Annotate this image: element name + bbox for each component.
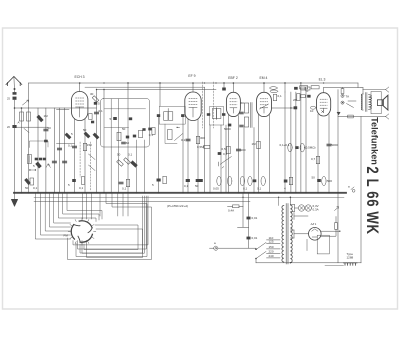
wire HV right [321, 217, 336, 237]
svg-text:0,5: 0,5 [222, 147, 227, 151]
wire mid verticals [204, 87, 206, 193]
coil IF2 lower [168, 130, 173, 140]
wire top HT bus [29, 82, 359, 84]
tube EM4 target mark [260, 104, 269, 109]
wire IF2 links [159, 83, 161, 106]
svg-text:0,1: 0,1 [68, 144, 73, 148]
capacitor trio [35, 158, 38, 161]
wire mid2 tops [284, 83, 286, 92]
svg-text:0,1: 0,1 [33, 186, 38, 190]
capacitor padder 1 [52, 161, 56, 163]
capacitor padder 3 [63, 161, 67, 163]
wire lamp feed [290, 205, 298, 212]
capacitor mains 1 [247, 217, 251, 220]
choke bus 1 [300, 86, 308, 89]
svg-text:50: 50 [122, 127, 126, 131]
transformer output secondary [369, 95, 372, 110]
wire EM4 pins [258, 115, 260, 193]
svg-text:EBF 2: EBF 2 [228, 76, 238, 80]
svg-text:TA: TA [346, 95, 350, 99]
resistor EBF2 load [227, 146, 230, 154]
wire input line 2 [15, 126, 49, 128]
coil IF can 1 [101, 99, 150, 148]
switch wave change [23, 100, 29, 105]
switch band wafer [71, 221, 92, 243]
switch pickup [219, 157, 232, 169]
resistor speaker shunt [348, 115, 354, 118]
wire AZ1 fil [290, 230, 308, 238]
wire bus link left [28, 83, 30, 108]
wire AZ1 left stub [306, 239, 308, 250]
wire right vertical B [360, 117, 362, 263]
fuse mains [233, 205, 240, 208]
svg-text:0,05: 0,05 [213, 187, 219, 191]
wire IF1 feeds [103, 90, 105, 99]
svg-text:10: 10 [310, 109, 314, 113]
wire AZ1 plate loop [294, 213, 340, 232]
wire EL3 pins [317, 114, 319, 193]
node arrow top [386, 87, 389, 92]
wire heater line [34, 196, 344, 198]
resistor EF9 cathode [196, 136, 199, 144]
svg-text:1288: 1288 [347, 256, 354, 260]
transformer IF2 [159, 106, 185, 124]
coil ferrite left [27, 155, 31, 164]
tube EL 3 [317, 77, 331, 116]
svg-text:5000: 5000 [331, 143, 338, 147]
wire AVC top link [85, 86, 205, 88]
resistor ECH3 right [89, 114, 92, 120]
wire speaker frame [371, 92, 381, 114]
svg-text:240: 240 [269, 254, 274, 258]
resistor TA [341, 89, 344, 94]
transformer output primary [361, 94, 363, 110]
svg-text:AZ 1: AZ 1 [310, 222, 317, 226]
svg-text:A: A [18, 121, 20, 125]
speaker magnet [377, 100, 382, 106]
wire right vertical A [337, 90, 339, 263]
wire ECH3 plate up [79, 83, 81, 92]
capacitor row d electrolytics [199, 179, 203, 182]
lamp pilot 1 [298, 205, 304, 211]
node chassis triangle [337, 112, 340, 115]
wire gang dashed 1 [202, 82, 204, 128]
svg-text:50: 50 [117, 153, 121, 157]
capacitor mid blob [218, 152, 222, 155]
capacitor screen [95, 112, 99, 114]
tube ECH 3 [72, 75, 88, 121]
capacitor IF4 trims [240, 112, 243, 113]
wire AZ1 box below [317, 235, 329, 254]
switch contact V [46, 164, 50, 168]
capacitor electrolytic pair [270, 87, 278, 90]
node arrow t [335, 207, 339, 211]
wire AVC line [34, 201, 250, 203]
svg-text:1M: 1M [44, 114, 49, 118]
switch left low [24, 129, 29, 133]
wire ECH3 pins down [74, 119, 76, 193]
capacitor EBF2 ac [237, 149, 241, 151]
tube EBF 2 [226, 76, 240, 117]
transformer power secondary [290, 205, 292, 263]
svg-text:50: 50 [195, 184, 199, 188]
transformer power core [285, 204, 287, 265]
capacitor top blob [222, 88, 226, 91]
svg-text:0,1: 0,1 [223, 152, 228, 156]
wire speaker bottom run [338, 116, 386, 118]
capacitor antenna shunt [12, 125, 16, 128]
wire left verticals [21, 108, 23, 193]
svg-text:60: 60 [241, 101, 245, 105]
capacitor EF9 bypass [186, 139, 190, 141]
wire band loops bottom [73, 196, 148, 245]
svg-text:50: 50 [25, 186, 29, 190]
wire antenna input line [15, 107, 97, 109]
svg-text:EM 4: EM 4 [260, 76, 268, 80]
capacitor antenna series [14, 88, 16, 90]
switch mains [256, 243, 266, 259]
transformer output core [364, 93, 366, 112]
tube EF 9 [185, 74, 201, 121]
resistor EM4 grid [257, 141, 260, 149]
capacitor padder 2 [58, 148, 62, 150]
svg-text:0,3A: 0,3A [313, 207, 319, 211]
coil ant A [20, 112, 24, 121]
wire EF9 plate [192, 83, 194, 92]
antenna [6, 77, 22, 93]
capacitor 01 coupling [152, 128, 155, 135]
svg-text:EF 9: EF 9 [188, 74, 195, 78]
svg-text:50: 50 [83, 128, 87, 132]
capacitor ECH3 grid [73, 146, 77, 148]
svg-text:0,1: 0,1 [257, 187, 262, 191]
capacitor IF2 left blob [157, 114, 160, 117]
capacitor tone EL3 [327, 144, 331, 146]
wire EL3 plate out [323, 88, 325, 93]
capacitor IF2 right blob [181, 114, 184, 117]
wire output primary top [361, 87, 363, 89]
transformer power primary [282, 206, 284, 263]
tube EL3 marker [322, 111, 324, 113]
wire band loops left [35, 193, 70, 239]
wire gang dashed 3 [79, 142, 81, 177]
choke bus 2 [311, 86, 319, 89]
node dots mid [29, 169, 30, 170]
svg-text:(0,5MΩ): (0,5MΩ) [305, 146, 316, 150]
node ab mark [351, 187, 355, 192]
svg-text:0,1: 0,1 [79, 186, 84, 190]
capacitor filter electrolytic [322, 176, 326, 185]
capacitor row e electrolytics [240, 176, 244, 185]
wire gang dashed 2 [213, 82, 215, 128]
svg-text:50: 50 [305, 89, 309, 93]
svg-text:220: 220 [269, 250, 274, 254]
wire switch bottom [255, 259, 257, 263]
wire mid2 verticals [284, 92, 286, 193]
resistor diag row [65, 133, 71, 139]
svg-text:1M: 1M [252, 142, 257, 146]
node bus junctions [14, 192, 16, 194]
resistor screen diag [92, 96, 99, 103]
svg-text:100: 100 [241, 148, 246, 152]
capacitor row c [157, 179, 161, 182]
svg-text:0,7: 0,7 [311, 157, 316, 161]
resistor ECH3 cathode [83, 143, 86, 151]
resistor row top [301, 87, 305, 90]
capacitor mains 2 [247, 237, 251, 240]
svg-text:(Pi-L88/L/23+A): (Pi-L88/L/23+A) [167, 204, 188, 208]
resistor diag small [36, 162, 42, 168]
resistor surge [335, 223, 338, 230]
wire band loops upper [58, 193, 96, 222]
svg-text:500: 500 [327, 179, 332, 183]
node arrow bottom [386, 114, 389, 119]
wire chassis bus [14, 192, 346, 194]
resistor volume pot [204, 145, 210, 148]
wire top bus right end [357, 83, 359, 88]
capacitor IF3 left [207, 113, 210, 116]
resistor 1M diag [37, 115, 43, 122]
jack TA bottom [341, 101, 344, 104]
lamp pilot 2 [305, 205, 311, 211]
wire IF4 drops [243, 128, 245, 193]
capacitor trim left [44, 129, 48, 131]
coil osc pack [117, 132, 121, 141]
svg-text:125: 125 [269, 240, 274, 244]
resistor diag cluster [117, 160, 124, 166]
svg-text:EL 3: EL 3 [319, 77, 326, 81]
svg-text:ECH 3: ECH 3 [75, 75, 85, 79]
wire can inner loop [105, 109, 146, 128]
wire heater top [289, 197, 291, 205]
capacitor decoupling blob [294, 87, 298, 90]
svg-text:FM: FM [64, 234, 69, 238]
svg-text:0,1: 0,1 [149, 133, 154, 137]
ground [11, 193, 17, 207]
resistor horiz [300, 95, 305, 98]
capacitor grid cap EL3 [310, 106, 315, 109]
wire IF3 box loop [209, 107, 223, 125]
wire band drops center [82, 193, 84, 219]
svg-text:0,1: 0,1 [122, 187, 127, 191]
wire mains v2 [248, 193, 250, 249]
wire HV bottom [256, 262, 361, 264]
capacitor can right [142, 128, 145, 131]
wire speaker top run [363, 89, 386, 91]
capacitor row a [72, 179, 76, 182]
svg-text:0,1: 0,1 [278, 94, 283, 98]
capacitor IF3 right [222, 113, 225, 116]
switch band contacts [89, 154, 96, 171]
wire IF1 drops [103, 99, 105, 193]
wire gang dashed 4 [90, 142, 92, 190]
plug mains [214, 246, 218, 250]
svg-text:0,1: 0,1 [243, 187, 248, 191]
svg-text:0,1+0,1: 0,1+0,1 [280, 143, 290, 147]
svg-text:0,1: 0,1 [181, 138, 186, 142]
wire EM4 top [263, 83, 265, 92]
resistor EM4 right [273, 94, 276, 101]
svg-text:150: 150 [269, 245, 274, 249]
capacitor blob mid [294, 106, 298, 109]
tube AZ1 [309, 228, 322, 241]
svg-text:0,4A: 0,4A [228, 209, 234, 213]
svg-text:60: 60 [126, 141, 130, 145]
wire mains v1 [242, 193, 244, 228]
transformer IF4 [244, 103, 248, 113]
svg-text:Telefunken: Telefunken [369, 117, 379, 165]
wire heater stub [238, 226, 249, 228]
svg-text:0,01: 0,01 [252, 236, 258, 240]
wire bottom links [325, 264, 344, 266]
speaker cone [383, 95, 388, 110]
wire EM4 output [272, 107, 296, 109]
blob mid [44, 140, 48, 143]
wire screen vertical [96, 90, 98, 193]
svg-text:150: 150 [87, 143, 92, 147]
svg-text:0,1: 0,1 [99, 109, 104, 113]
wire EBF2 pins [228, 115, 230, 193]
svg-text:0,01: 0,01 [252, 216, 258, 220]
svg-text:2M: 2M [293, 98, 298, 102]
switch IF contacts [175, 128, 183, 141]
comb suppressor [344, 263, 358, 265]
resistor vert 2M [297, 94, 300, 101]
svg-text:50: 50 [312, 176, 316, 180]
capacitor EBF2 out [228, 124, 231, 127]
wire EF9 pins [187, 119, 189, 193]
svg-text:30: 30 [90, 92, 94, 96]
coil ant B [27, 112, 31, 121]
svg-text:5000: 5000 [224, 127, 231, 131]
capacitor cathode EL3 pair [288, 143, 292, 152]
capacitor row b [119, 182, 123, 184]
tube EM 4 [257, 76, 272, 117]
transformer IF3 [212, 109, 216, 119]
wire voltage taps [267, 239, 281, 241]
wire band nested rects [84, 225, 138, 250]
wire screen bus [97, 89, 217, 91]
svg-text:50: 50 [48, 126, 52, 130]
wire antenna lead [14, 100, 16, 193]
capacitor row f [284, 180, 288, 183]
resistor grid leak [316, 156, 319, 164]
wire loop left mid [29, 141, 48, 148]
switch tone [347, 101, 357, 108]
capacitor IF1 trims [122, 142, 126, 143]
svg-text:0,1: 0,1 [184, 184, 189, 188]
wire tie lines left [57, 109, 70, 111]
svg-text:0,5M: 0,5M [197, 145, 204, 149]
node top bus junctions [103, 82, 104, 83]
capacitor resistor pair low [25, 178, 31, 184]
svg-text:0,1: 0,1 [128, 153, 133, 157]
wire band drops right [99, 193, 101, 216]
capacitor osc pad [113, 117, 117, 120]
wire EBF2 plate [232, 83, 234, 92]
svg-text:2 L 66 WK: 2 L 66 WK [362, 166, 381, 234]
jack TA top [341, 94, 344, 97]
